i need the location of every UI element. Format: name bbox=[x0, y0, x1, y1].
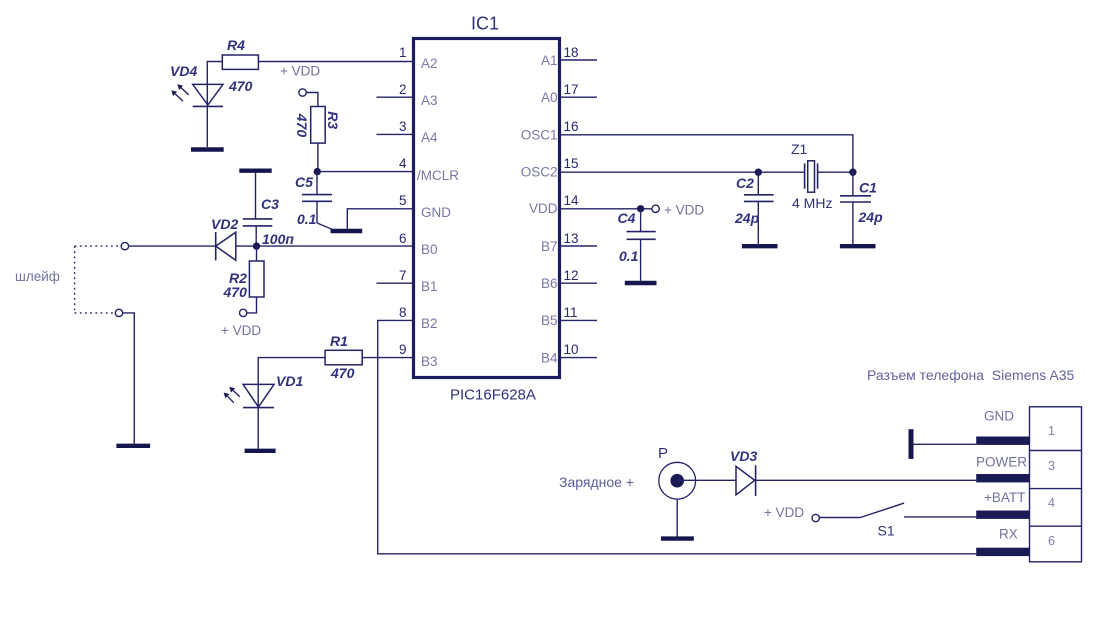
node +VDD terminal of R3 bbox=[299, 89, 306, 96]
wire dotted horizontal upper bbox=[75, 245, 121, 247]
capacitor C4 bbox=[627, 209, 656, 281]
wire R1 left to VD1 bbox=[258, 358, 325, 385]
crystal Z1 bbox=[805, 161, 818, 192]
svg-text:0.1: 0.1 bbox=[297, 211, 317, 227]
wire pin 1 to R4 bbox=[258, 61, 413, 63]
svg-text:Разъем телефона Siemens A35: Разъем телефона Siemens A35 bbox=[867, 367, 1075, 383]
switch S1 bbox=[819, 503, 904, 517]
svg-text:24p: 24p bbox=[734, 210, 760, 226]
wire pin 17 stub bbox=[560, 96, 598, 98]
svg-text:B2: B2 bbox=[421, 316, 438, 331]
wire P to VD3 bbox=[677, 479, 736, 481]
op-amp U1 : microcontroller IC1 body bbox=[414, 39, 560, 378]
wire R3 bottom to pin 4 bbox=[318, 143, 414, 172]
ground under VD4 bbox=[191, 147, 224, 151]
svg-text:RX: RX bbox=[999, 527, 1018, 542]
svg-text:+ VDD: + VDD bbox=[280, 64, 320, 79]
svg-text:VD2: VD2 bbox=[211, 216, 238, 232]
wire GND pin 5 bbox=[347, 209, 413, 229]
ground under VD1 bbox=[245, 449, 276, 453]
svg-text:14: 14 bbox=[564, 193, 580, 208]
pad +BATT bbox=[976, 511, 1029, 519]
wire pin 13 stub bbox=[560, 245, 598, 247]
wire R3 top bbox=[306, 93, 318, 107]
svg-text:VD3: VD3 bbox=[730, 448, 757, 464]
svg-text:A0: A0 bbox=[541, 90, 558, 105]
svg-text:470: 470 bbox=[223, 284, 248, 300]
wire bar to C3 bbox=[255, 173, 257, 219]
wire pin 10 stub bbox=[560, 357, 598, 359]
wire B2 to RX bbox=[378, 320, 977, 553]
svg-text:S1: S1 bbox=[878, 523, 895, 539]
svg-text:OSC1: OSC1 bbox=[521, 128, 558, 143]
svg-text:Z1: Z1 bbox=[791, 141, 808, 157]
wire pin 9 to R1 bbox=[362, 357, 413, 359]
svg-text:2: 2 bbox=[399, 82, 407, 97]
pad GND bbox=[976, 437, 1029, 445]
ground under C1 bbox=[840, 244, 876, 248]
node +VDD terminal at pin 14 bbox=[652, 205, 659, 212]
svg-text:1: 1 bbox=[399, 45, 407, 60]
svg-text:A3: A3 bbox=[421, 93, 438, 108]
capacitor C3 bbox=[243, 219, 272, 246]
ground under P bbox=[661, 536, 694, 540]
svg-text:+ VDD: + VDD bbox=[764, 505, 804, 520]
wire pin 12 stub bbox=[560, 282, 598, 284]
wire OSC2 pin 15 to crystal bbox=[560, 171, 805, 173]
node open terminal upper of loop bbox=[121, 242, 128, 249]
ground under C4 bbox=[625, 281, 657, 285]
capacitor C1 bbox=[840, 172, 871, 244]
connector X1 body bbox=[1030, 407, 1082, 562]
capacitor C2 bbox=[744, 172, 774, 244]
svg-text:+ VDD: + VDD bbox=[664, 203, 704, 218]
pad POWER bbox=[976, 474, 1029, 482]
wire GND pin bbox=[911, 443, 976, 445]
svg-text:R1: R1 bbox=[330, 333, 348, 349]
svg-text:PIC16F628A: PIC16F628A bbox=[450, 387, 536, 404]
wire pin 3 stub bbox=[377, 133, 414, 135]
junction C4 node bbox=[637, 205, 644, 212]
svg-text:A2: A2 bbox=[421, 56, 438, 71]
pad RX bbox=[976, 548, 1029, 556]
junction B0 node bbox=[253, 242, 260, 249]
wire R2 bottom to +VDD bbox=[247, 297, 257, 313]
wire crystal right to C1 bbox=[818, 171, 853, 173]
svg-text:4: 4 bbox=[1048, 496, 1055, 510]
svg-text:Зарядное +: Зарядное + bbox=[559, 474, 634, 490]
wire loop lower to ground bbox=[123, 313, 135, 444]
svg-text:6: 6 bbox=[399, 231, 407, 246]
svg-text:VD4: VD4 bbox=[170, 63, 197, 79]
svg-text:B1: B1 bbox=[421, 279, 438, 294]
svg-text:VDD: VDD bbox=[529, 201, 558, 216]
svg-text:R3: R3 bbox=[325, 111, 341, 129]
svg-text:R4: R4 bbox=[227, 37, 245, 53]
wire dotted vertical bbox=[74, 246, 76, 313]
ground C5/GND bbox=[331, 229, 363, 233]
svg-text:18: 18 bbox=[564, 45, 579, 60]
LED VD4 arrows bbox=[171, 84, 188, 101]
wire pin 6 B0 row bbox=[129, 245, 414, 247]
svg-text:C4: C4 bbox=[618, 210, 636, 226]
svg-text:6: 6 bbox=[1048, 534, 1055, 548]
svg-text:7: 7 bbox=[399, 268, 407, 283]
svg-text:B6: B6 bbox=[541, 276, 558, 291]
svg-text:+BATT: +BATT bbox=[984, 490, 1025, 505]
resistor R1 bbox=[325, 350, 362, 365]
diode VD3 bbox=[736, 465, 756, 496]
svg-text:9: 9 bbox=[399, 342, 407, 357]
wire pin 7 stub bbox=[377, 282, 414, 284]
wire OSC1 pin 16 to crystal bbox=[560, 135, 853, 172]
svg-text:A4: A4 bbox=[421, 130, 438, 145]
svg-text:C5: C5 bbox=[295, 174, 313, 190]
svg-text:C3: C3 bbox=[261, 196, 279, 212]
svg-text:0.1: 0.1 bbox=[619, 248, 639, 264]
node +VDD terminal of R2 bbox=[240, 309, 247, 316]
wire pin 11 stub bbox=[560, 319, 598, 321]
wire pin 2 stub bbox=[377, 96, 414, 98]
svg-text:16: 16 bbox=[564, 119, 579, 134]
svg-text:B0: B0 bbox=[421, 242, 438, 257]
wire VD3 to POWER bbox=[756, 479, 977, 481]
svg-text:+ VDD: + VDD bbox=[221, 323, 261, 338]
svg-text:POWER: POWER bbox=[976, 455, 1027, 470]
svg-text:15: 15 bbox=[564, 156, 579, 171]
wire P to ground bbox=[676, 499, 678, 536]
junction C1 node bbox=[849, 169, 856, 176]
wire R4 left to VD4 bbox=[207, 62, 222, 85]
svg-text:шлейф: шлейф bbox=[15, 269, 60, 284]
svg-text:5: 5 bbox=[399, 193, 407, 208]
wire S1 to +BATT bbox=[904, 516, 976, 518]
svg-text:B5: B5 bbox=[541, 313, 558, 328]
LED VD4 bbox=[193, 84, 223, 147]
svg-text:B3: B3 bbox=[421, 354, 438, 369]
svg-text:470: 470 bbox=[294, 113, 310, 138]
svg-text:12: 12 bbox=[564, 268, 579, 283]
plate bar above C3 bbox=[239, 168, 271, 172]
LED VD1 arrows bbox=[224, 387, 240, 403]
svg-text:C2: C2 bbox=[736, 175, 754, 191]
svg-text:GND: GND bbox=[984, 409, 1014, 424]
svg-text:470: 470 bbox=[330, 365, 355, 381]
resistor R4 bbox=[222, 55, 258, 69]
node open terminal lower of loop bbox=[115, 309, 122, 316]
svg-text:VD1: VD1 bbox=[276, 373, 303, 389]
diode VD2 bbox=[216, 232, 236, 260]
junction R3 / MCLR bbox=[314, 168, 321, 175]
ground of loop bbox=[116, 444, 150, 448]
svg-text:P: P bbox=[658, 445, 668, 462]
LED VD1 bbox=[243, 384, 274, 448]
svg-text:IC1: IC1 bbox=[471, 14, 499, 34]
svg-text:OSC2: OSC2 bbox=[521, 165, 558, 180]
resistor R2 bbox=[249, 246, 264, 297]
svg-text:B4: B4 bbox=[541, 351, 558, 366]
svg-text:8: 8 bbox=[399, 305, 407, 320]
wire pin 18 stub bbox=[560, 59, 598, 61]
svg-text:/MCLR: /MCLR bbox=[417, 168, 459, 183]
ground bar at GND pin bbox=[909, 429, 914, 459]
capacitor C5 bbox=[302, 172, 332, 223]
svg-text:100п: 100п bbox=[262, 231, 294, 247]
svg-text:17: 17 bbox=[564, 82, 579, 97]
svg-text:C1: C1 bbox=[859, 180, 877, 196]
svg-text:24p: 24p bbox=[858, 209, 884, 225]
svg-text:11: 11 bbox=[564, 305, 578, 320]
svg-text:4: 4 bbox=[399, 156, 407, 171]
svg-text:10: 10 bbox=[564, 342, 579, 357]
svg-text:A1: A1 bbox=[541, 53, 558, 68]
resistor R3 bbox=[311, 107, 326, 144]
connector P jack bbox=[659, 462, 696, 499]
svg-text:B7: B7 bbox=[541, 239, 558, 254]
wire VDD pin 14 bbox=[560, 208, 652, 210]
wire dotted horizontal lower bbox=[75, 312, 115, 314]
svg-text:3: 3 bbox=[399, 119, 407, 134]
wire C5 bottom diagonal to ground bbox=[317, 223, 335, 231]
node S1 left terminal bbox=[812, 514, 819, 521]
svg-text:3: 3 bbox=[1048, 459, 1055, 473]
svg-text:470: 470 bbox=[228, 78, 253, 94]
svg-text:1: 1 bbox=[1048, 424, 1055, 438]
svg-text:13: 13 bbox=[564, 231, 579, 246]
svg-text:GND: GND bbox=[421, 205, 451, 220]
ground under C2 bbox=[742, 244, 778, 248]
junction C2 node bbox=[755, 169, 762, 176]
svg-text:4 MHz: 4 MHz bbox=[792, 195, 832, 211]
